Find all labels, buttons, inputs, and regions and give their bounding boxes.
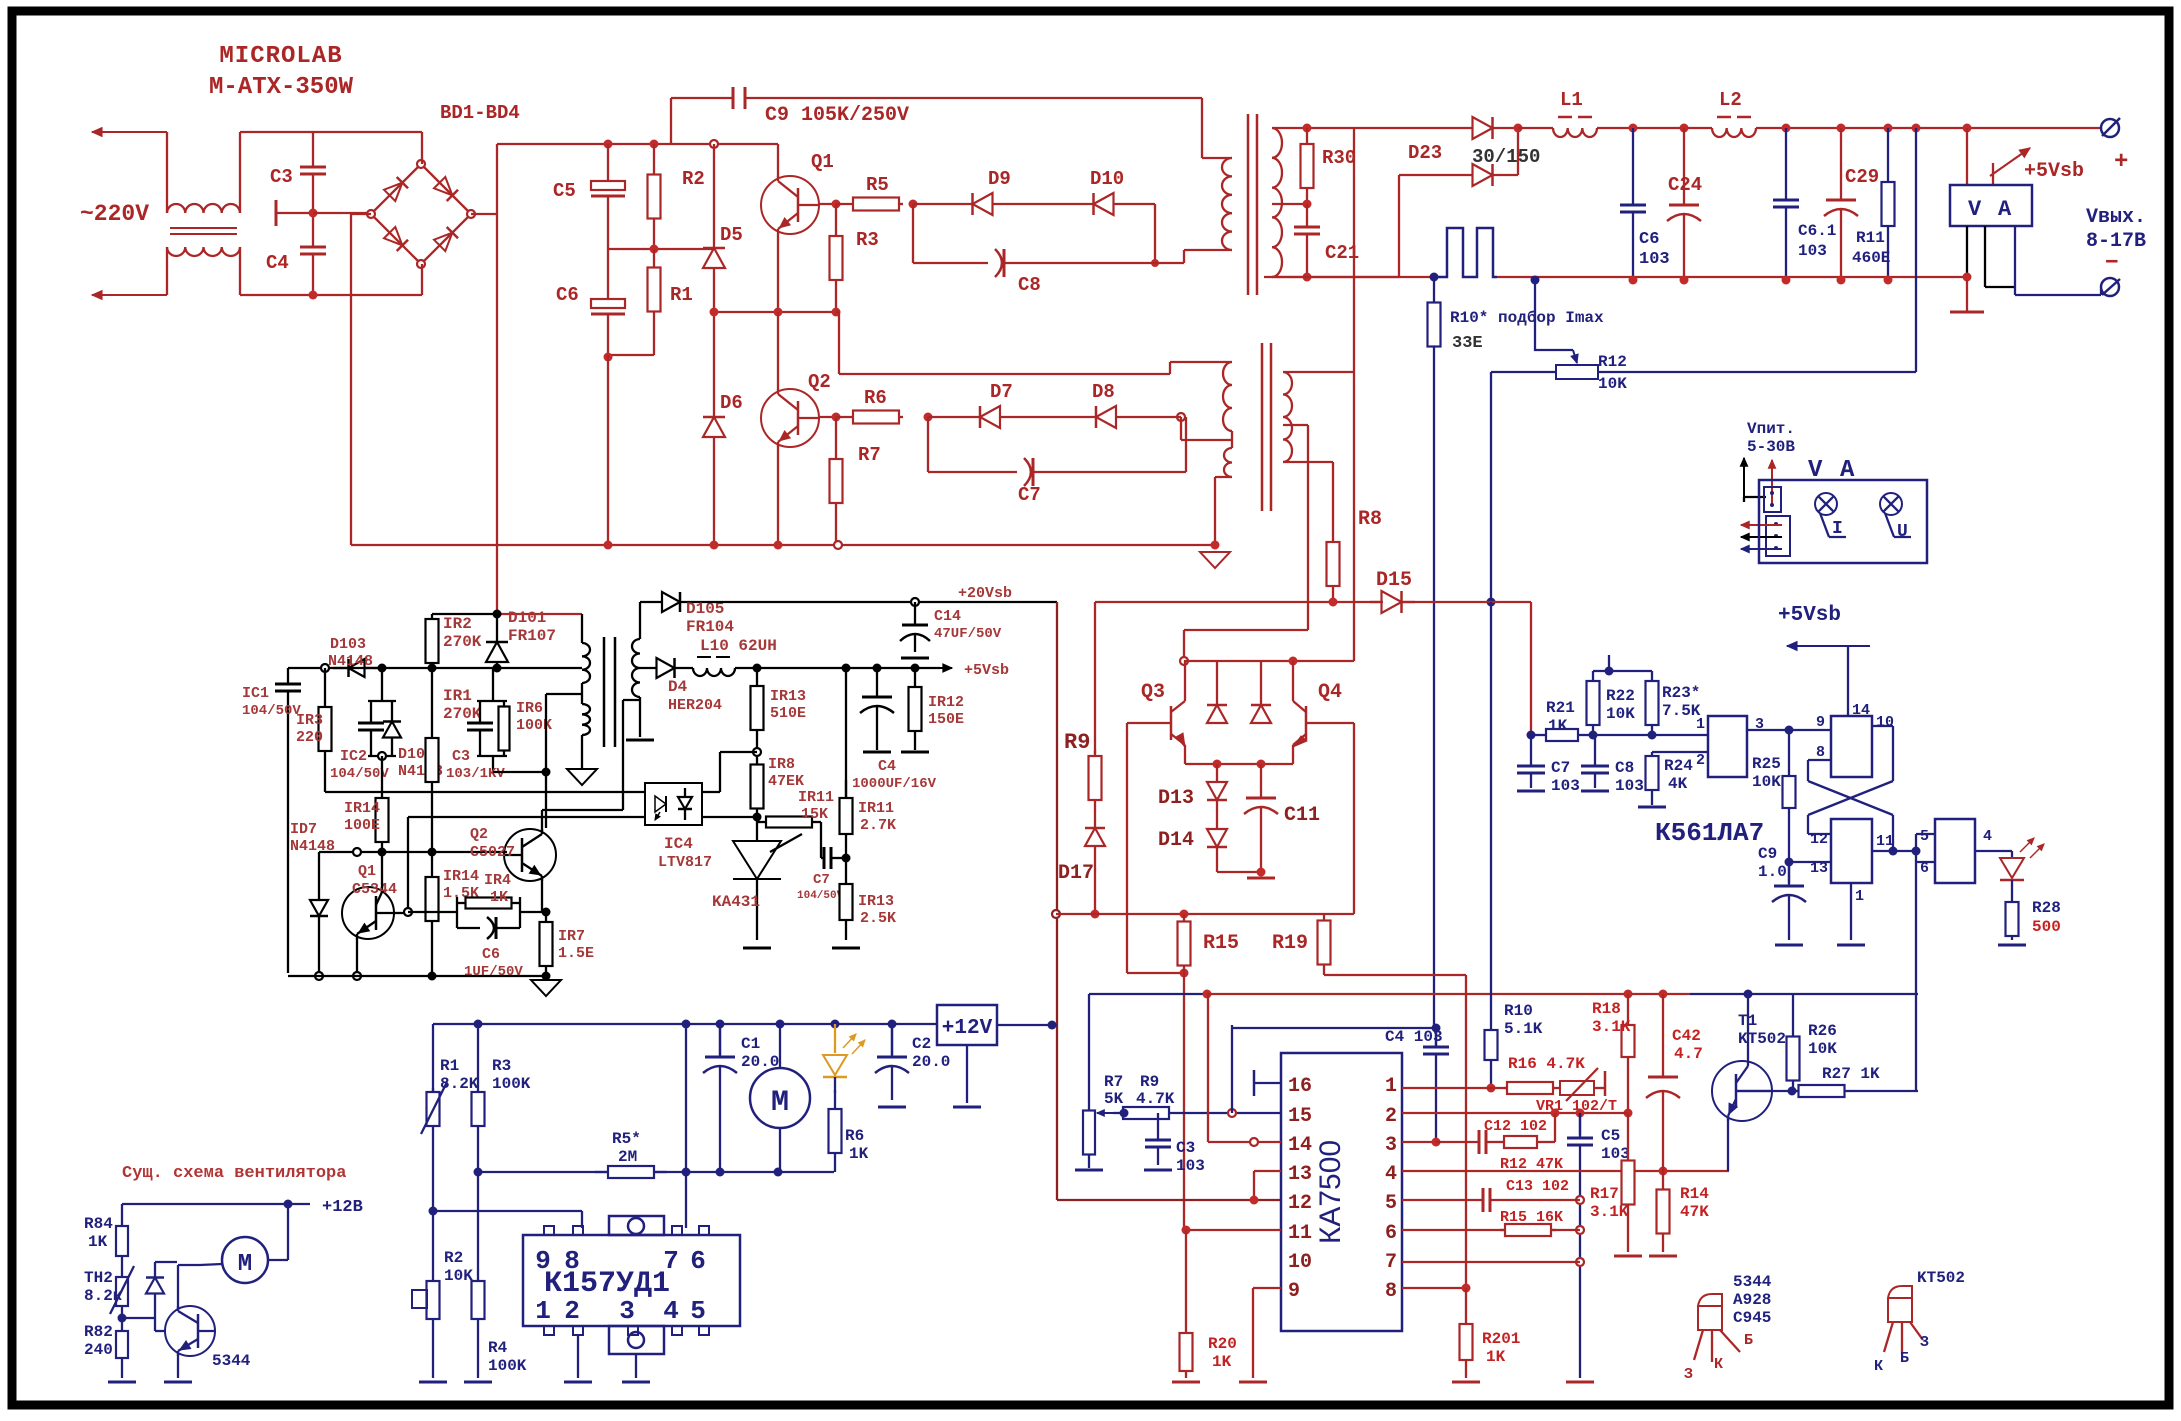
svg-text:U: U: [1897, 522, 1908, 542]
svg-text:270K: 270K: [443, 705, 482, 723]
V A meter box: [1950, 185, 2032, 226]
arrow Vpit red: [1768, 460, 1775, 506]
LED indicator: [2000, 838, 2044, 898]
svg-text:IR14: IR14: [344, 800, 380, 817]
main transformer core: [1248, 114, 1257, 295]
transistor Q2: [761, 371, 831, 447]
svg-text:12: 12: [1288, 1192, 1312, 1215]
svg-text:R24: R24: [1664, 757, 1693, 775]
capacitor C21: [1294, 204, 1359, 277]
svg-text:R3: R3: [492, 1057, 511, 1075]
wire R1 down: [432, 1130, 434, 1211]
wire pin3 net: [1402, 1138, 1441, 1147]
pair IR4 C6: [457, 872, 520, 939]
wire R12 right: [1915, 128, 1917, 372]
svg-text:R9: R9: [1064, 730, 1090, 755]
wire pin13 net: [1785, 858, 1832, 884]
bridge diode D4: [434, 227, 458, 251]
resistor R20 1K: [1172, 1230, 1237, 1382]
terminal minus: [2101, 246, 2120, 296]
resistor IR13 2.5K: [832, 858, 896, 948]
package KT502 labels: [1874, 1334, 1929, 1375]
wire pin6 row: [1402, 1229, 1580, 1231]
svg-text:R27 1K: R27 1K: [1822, 1065, 1880, 1083]
svg-text:1000UF/16V: 1000UF/16V: [852, 776, 937, 792]
svg-text:C7: C7: [813, 872, 830, 888]
svg-text:Q1: Q1: [358, 863, 376, 880]
wire Q1 emit: [353, 938, 361, 980]
svg-text:ID7: ID7: [290, 821, 317, 838]
IC bottom tab: [609, 1326, 664, 1354]
arrow out black: [1741, 533, 1782, 540]
ground standby primary: [567, 769, 597, 785]
svg-text:C7: C7: [1018, 484, 1041, 506]
wire drive primary bottom: [1211, 477, 1233, 550]
IC pin 6 stub: [690, 1226, 709, 1276]
svg-text:L2: L2: [1719, 89, 1742, 111]
svg-text:M: M: [771, 1086, 789, 1120]
svg-text:R8: R8: [1358, 508, 1382, 531]
arrow out navy: [1741, 545, 1782, 552]
wire rail994 red: [1207, 990, 1690, 999]
pin label 2: [1385, 1105, 1397, 1128]
wire gate4 down: [1915, 862, 1917, 1090]
resistor IR12 150E: [901, 668, 964, 752]
pin label 4: [1385, 1163, 1397, 1186]
svg-text:C3: C3: [452, 748, 470, 765]
svg-text:2: 2: [564, 1296, 580, 1326]
arrow out red: [1741, 521, 1782, 528]
wire HV to standby: [497, 614, 582, 643]
ground R2: [419, 1381, 447, 1384]
svg-text:D10: D10: [1090, 168, 1124, 190]
ground out: [1950, 280, 1984, 312]
svg-text:104/50V: 104/50V: [330, 766, 389, 782]
wire C7 row left: [927, 417, 929, 472]
wire bottom out rail: [1264, 276, 1967, 285]
svg-text:~220V: ~220V: [80, 201, 149, 227]
pin label 9: [1288, 1280, 1300, 1303]
wire gate4 out: [1975, 851, 2012, 858]
svg-text:D17: D17: [1058, 862, 1094, 885]
svg-text:1K: 1K: [849, 1145, 869, 1163]
svg-text:M: M: [238, 1251, 252, 1278]
wire AC to bridge top: [421, 132, 423, 164]
wire R10 column: [1433, 372, 1435, 1028]
inductor L10: [693, 637, 777, 676]
pin16 stub: [1254, 1070, 1281, 1096]
bridge diode D3: [384, 227, 408, 251]
resistor R6: [836, 387, 903, 424]
svg-text:9: 9: [1288, 1280, 1300, 1303]
svg-text:4: 4: [1983, 828, 1992, 845]
svg-text:C13 102: C13 102: [1506, 1178, 1569, 1195]
resistor R10* 33E: [1428, 277, 1605, 372]
svg-text:IR1: IR1: [443, 687, 472, 705]
resistor R4 100K: [464, 1172, 527, 1382]
label Vvyh: [2086, 206, 2146, 253]
wire meter gnd: [1967, 226, 2015, 287]
diode D5: [703, 144, 743, 312]
node R10 shunt: [1430, 273, 1439, 282]
wire pin1 row: [1402, 1087, 1515, 1089]
pin label 16: [1288, 1075, 1312, 1098]
svg-text:R7: R7: [1104, 1073, 1123, 1091]
drive transformer primary lower: [1224, 448, 1232, 477]
drive transformer primary upper: [1223, 362, 1232, 431]
inductor L2: [1712, 89, 1756, 137]
svg-text:R201: R201: [1482, 1330, 1520, 1348]
svg-text:D15: D15: [1376, 569, 1412, 592]
diode D23b: [1449, 164, 1518, 186]
IC K157UD1 box: [523, 1235, 740, 1326]
svg-text:TH2: TH2: [84, 1269, 113, 1287]
svg-text:15K: 15K: [801, 806, 828, 823]
svg-text:4: 4: [1385, 1163, 1397, 1186]
wire pin9 net: [1239, 1288, 1281, 1382]
wire diode gnd: [1217, 858, 1266, 877]
svg-text:R6: R6: [864, 387, 887, 409]
capacitor C13 102: [1462, 1178, 1569, 1212]
choke lower winding: [167, 247, 240, 256]
svg-text:3: 3: [619, 1296, 635, 1326]
wire gate4 in: [1916, 834, 1935, 862]
wire D23b feed: [1307, 175, 1449, 277]
svg-text:MICROLAB: MICROLAB: [219, 43, 342, 70]
wire Q1 базе: [394, 908, 412, 916]
svg-text:КА7500: КА7500: [1314, 1140, 1347, 1244]
svg-text:IC4: IC4: [664, 835, 693, 853]
resistor IR2 270K: [426, 614, 482, 668]
svg-text:R15: R15: [1203, 932, 1239, 955]
ground pin2: [564, 1381, 592, 1384]
wire zener top: [0, 0, 1, 1]
svg-text:M-ATX-350W: M-ATX-350W: [209, 74, 354, 101]
svg-text:5-30В: 5-30В: [1747, 438, 1795, 456]
pin label 6: [1385, 1222, 1397, 1245]
svg-text:16: 16: [1288, 1075, 1312, 1098]
LED fan: [823, 1024, 865, 1093]
svg-text:460E: 460E: [1852, 249, 1890, 267]
svg-text:+12В: +12В: [322, 1198, 363, 1217]
wire secondary top: [1272, 127, 1307, 129]
svg-text:5344: 5344: [1733, 1273, 1772, 1291]
capacitor C2 20.0: [875, 1024, 950, 1107]
svg-text:Q1: Q1: [811, 151, 834, 173]
svg-text:20.0: 20.0: [912, 1053, 950, 1071]
capacitor C12 102: [1436, 1118, 1547, 1154]
svg-text:К561ЛА7: К561ЛА7: [1655, 818, 1764, 848]
IC pin 9 stub: [535, 1226, 554, 1276]
wire gate3 gnd: [1837, 883, 1865, 945]
svg-text:IC1: IC1: [242, 685, 269, 702]
wire R15 col down: [1183, 973, 1185, 1230]
wire DC- down: [351, 214, 371, 545]
svg-text:47K: 47K: [1680, 1203, 1709, 1221]
gate U1a: [1696, 716, 1764, 777]
wire R22R23 top: [1593, 655, 1652, 676]
resistor IR11 2.7K: [840, 664, 897, 859]
standby transformer core: [604, 637, 615, 747]
svg-text:+20Vsb: +20Vsb: [958, 585, 1012, 602]
pin label 8: [1385, 1280, 1397, 1303]
wire +5Vsb stub: [1992, 163, 1994, 185]
svg-text:К: К: [1874, 1358, 1883, 1375]
svg-text:10K: 10K: [1752, 773, 1781, 791]
svg-text:R1: R1: [440, 1057, 459, 1075]
svg-text:100E: 100E: [344, 817, 380, 834]
svg-text:R2: R2: [682, 168, 705, 190]
svg-text:5344: 5344: [212, 1352, 251, 1370]
svg-text:C5: C5: [1601, 1127, 1620, 1145]
svg-text:R21: R21: [1546, 699, 1575, 717]
svg-text:R10: R10: [1504, 1002, 1533, 1020]
bridge diode D1: [384, 177, 408, 201]
svg-text:14: 14: [1288, 1134, 1312, 1157]
svg-text:C21: C21: [1325, 242, 1359, 264]
svg-text:10K: 10K: [444, 1267, 473, 1285]
svg-text:R2: R2: [444, 1249, 463, 1267]
wire base row: [319, 848, 507, 857]
svg-text:IR2: IR2: [443, 615, 472, 633]
diode D6: [703, 312, 743, 545]
wire Q2 emitter: [777, 446, 779, 545]
svg-text:A: A: [1998, 197, 2012, 222]
svg-text:Б: Б: [1744, 1332, 1753, 1349]
diode D17: [1058, 806, 1105, 919]
capacitor C4 1000UF: [852, 668, 937, 792]
capacitor C8 103: [1581, 735, 1644, 795]
svg-text:103: 103: [1798, 242, 1827, 260]
resistor R7: [830, 417, 881, 545]
svg-text:8.2к: 8.2к: [84, 1287, 123, 1305]
bridge nodes: [367, 160, 475, 268]
diode Q34 left: [1207, 661, 1227, 724]
wire cross couple: [1808, 726, 1898, 856]
resistor R12 47K: [1500, 1113, 1563, 1173]
resistor R3 100K: [472, 1024, 531, 1130]
potentiometer R12: [1531, 276, 1628, 394]
IC pin 2 stub: [564, 1296, 583, 1335]
node D8 right: [1160, 413, 1185, 421]
capacitor C29: [1824, 128, 1879, 280]
wire primary bottom: [1155, 250, 1232, 263]
svg-text:К: К: [1714, 1356, 1723, 1373]
svg-text:KT502: KT502: [1917, 1269, 1965, 1287]
svg-text:R7: R7: [858, 444, 881, 466]
wire row912: [408, 908, 551, 917]
AC line2 wire: [166, 247, 168, 295]
svg-text:R19: R19: [1272, 932, 1308, 955]
svg-text:R84: R84: [84, 1215, 113, 1233]
wire secondary top: [639, 602, 641, 639]
resistor R15 16K: [1500, 1209, 1563, 1236]
resistor R24 4K: [1638, 752, 1693, 807]
svg-text:Vпит.: Vпит.: [1747, 420, 1795, 438]
resistor R82 240: [84, 1310, 136, 1382]
zener fan: [122, 1262, 177, 1318]
wire primary tap: [546, 694, 582, 828]
KA7500 box: [1281, 1053, 1402, 1331]
label +12B: [322, 1198, 363, 1217]
svg-text:R25: R25: [1752, 755, 1781, 773]
svg-text:C3: C3: [270, 166, 293, 188]
svg-text:R3: R3: [856, 229, 879, 251]
wire pin1 row: [1593, 734, 1708, 736]
pin label 7: [1385, 1251, 1397, 1274]
drive transformer core: [1262, 343, 1271, 511]
svg-text:2: 2: [1696, 752, 1705, 769]
wire R12 left: [1487, 372, 1917, 607]
svg-text:C6: C6: [1639, 230, 1659, 249]
diode D8: [1050, 381, 1160, 428]
transistor Q1: [761, 151, 834, 234]
diode D7: [928, 381, 1050, 428]
wire Q34 feed: [1180, 630, 1308, 665]
wire IR2 top: [432, 613, 497, 615]
IC pin 5 stub: [690, 1296, 709, 1335]
svg-text:D23: D23: [1408, 142, 1442, 164]
resistor R28 500: [1998, 898, 2061, 945]
pair IC2 D102: [330, 668, 443, 782]
svg-text:1K: 1K: [1548, 717, 1568, 735]
package KT502: [1884, 1269, 1965, 1354]
resistor R3: [830, 204, 879, 312]
wire pin2 row: [1652, 751, 1708, 753]
wire C5-R2 bottom: [608, 245, 714, 254]
svg-text:220: 220: [296, 729, 323, 746]
main transformer primary: [1222, 158, 1232, 250]
svg-text:12: 12: [1810, 831, 1828, 848]
wire pin11 net: [1182, 1226, 1282, 1235]
transistor Q1 C5344: [342, 887, 394, 939]
wire x1354 up: [1353, 128, 1355, 372]
IC pin 3 stub: [619, 1296, 638, 1335]
svg-text:4.7K: 4.7K: [1136, 1090, 1175, 1108]
svg-text:D13: D13: [1158, 787, 1194, 810]
svg-text:7: 7: [663, 1246, 679, 1276]
svg-text:5: 5: [1920, 828, 1929, 845]
svg-text:R4: R4: [488, 1339, 508, 1357]
wire AC to bridge bottom: [421, 264, 423, 295]
AC line2 arrow: [92, 291, 167, 300]
node C3-C4: [309, 209, 318, 300]
label fan schema: [122, 1164, 346, 1183]
resistor IR1 270K: [426, 668, 482, 852]
wire opto row792 left: [325, 791, 645, 793]
svg-text:C6.1: C6.1: [1798, 222, 1836, 240]
wire to L1: [1518, 127, 1553, 129]
diode D14: [1158, 820, 1227, 858]
wire standby bottom rail: [288, 972, 551, 981]
resistor R19: [1272, 914, 1331, 971]
wire DC- rail: [351, 544, 1215, 546]
capacitor C5: [553, 144, 625, 249]
capacitor C7 103: [1517, 735, 1580, 795]
wire pin7 row: [1402, 1261, 1580, 1263]
wire drive sec top: [1283, 371, 1354, 373]
node IR13 bottom: [753, 748, 761, 756]
resistor R8: [1327, 508, 1383, 600]
svg-text:C3: C3: [1176, 1139, 1195, 1157]
svg-text:R26: R26: [1808, 1022, 1837, 1040]
potentiometer R7 5K: [1075, 1073, 1124, 1170]
svg-text:IR8: IR8: [768, 756, 795, 773]
svg-text:IR11: IR11: [858, 800, 894, 817]
svg-text:C945: C945: [1733, 1309, 1771, 1327]
svg-text:1: 1: [1385, 1075, 1397, 1098]
svg-text:FR104: FR104: [686, 618, 734, 636]
wire top out rail: [1303, 124, 1450, 133]
svg-text:N4148: N4148: [328, 653, 373, 670]
choke core: [170, 228, 237, 234]
wire fan12 rail: [122, 1200, 293, 1209]
shunt reg KA431: [712, 817, 802, 948]
svg-text:D5: D5: [720, 224, 743, 246]
wire meter minus: [2015, 226, 2101, 295]
svg-text:HER204: HER204: [668, 697, 722, 714]
wire Qfan base: [0, 0, 1, 1]
svg-text:C24: C24: [1668, 174, 1702, 196]
svg-text:C8: C8: [1018, 274, 1041, 296]
svg-text:R12: R12: [1598, 353, 1627, 371]
capacitor C6.1: [1773, 128, 1836, 280]
svg-text:3.1K: 3.1K: [1590, 1203, 1629, 1221]
pin label 10: [1288, 1251, 1312, 1274]
wire pin8 row: [1402, 1284, 1471, 1293]
wire Q1 collector: [777, 144, 779, 177]
resistor R15: [1178, 914, 1240, 973]
svg-text:2: 2: [1385, 1105, 1397, 1128]
wire IC2 row: [324, 790, 326, 792]
fan motor M2: [222, 1237, 268, 1283]
svg-text:D101: D101: [508, 609, 546, 627]
diode ID7: [290, 821, 335, 980]
resistor R5* 2M: [595, 1130, 667, 1178]
wire Q2 coll line: [542, 700, 640, 831]
svg-text:R18: R18: [1592, 1000, 1621, 1018]
svg-text:103: 103: [1551, 777, 1580, 795]
svg-text:5.1K: 5.1K: [1504, 1020, 1543, 1038]
svg-text:R17: R17: [1590, 1185, 1619, 1203]
label +20Vsb: [958, 585, 1012, 602]
svg-text:9: 9: [1816, 714, 1825, 731]
svg-text:R11: R11: [1856, 229, 1885, 247]
wire primary bottom gnd: [581, 735, 583, 769]
capacitor C4: [266, 213, 326, 295]
resistor R9: [1064, 602, 1102, 806]
svg-text:D4: D4: [668, 678, 688, 696]
svg-text:C29: C29: [1845, 166, 1879, 188]
node R23 bottom: [1648, 731, 1657, 740]
resistor R22 10K: [1587, 671, 1636, 735]
pin label 12: [1288, 1192, 1312, 1215]
+12V box: [937, 1005, 997, 1045]
svg-text:C11: C11: [1284, 804, 1320, 827]
svg-text:C9 105K/250V: C9 105K/250V: [765, 104, 909, 127]
AC line1 arrow: [92, 128, 167, 137]
svg-text:Б: Б: [1900, 1350, 1909, 1367]
resistor R1: [648, 249, 693, 330]
wire L2 to out: [1756, 124, 2102, 133]
pot VR1 102/T: [1536, 1068, 1617, 1115]
wire rail994 blue: [1690, 990, 1918, 1027]
wire mid to bridge: [313, 212, 371, 214]
label ~220V: [80, 201, 149, 227]
svg-text:33E: 33E: [1452, 334, 1483, 353]
svg-text:I: I: [1832, 519, 1843, 539]
ground Q34: [1247, 877, 1275, 880]
